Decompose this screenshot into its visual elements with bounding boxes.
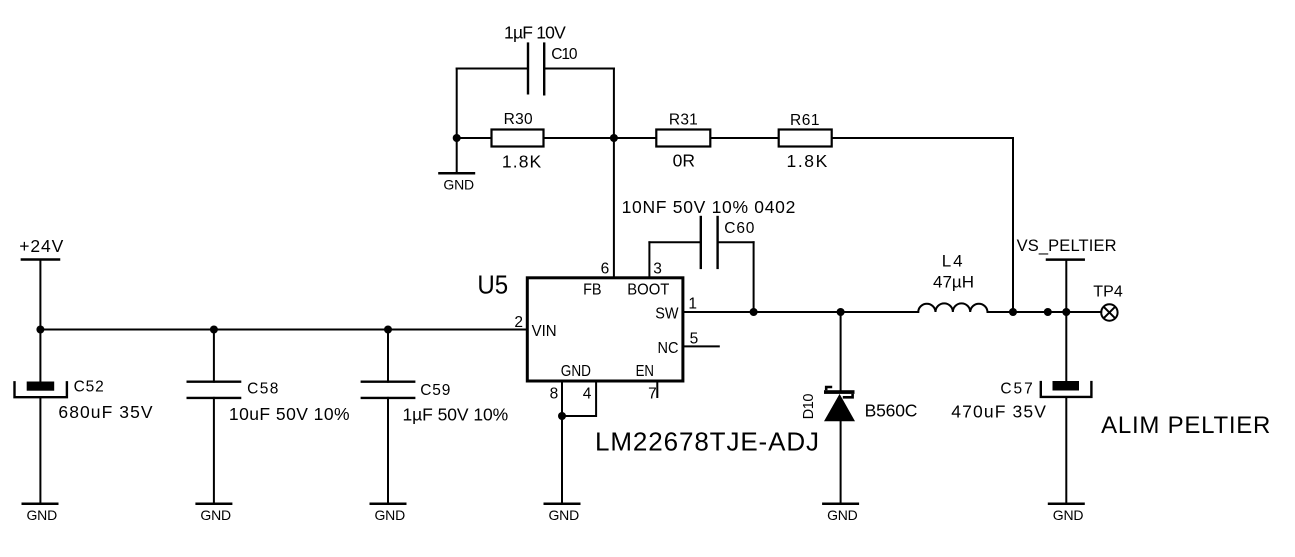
svg-text:U5: U5 bbox=[477, 271, 508, 300]
wire C58 bottom bbox=[213, 398, 215, 504]
capacitor C52 polarized bbox=[15, 381, 67, 397]
svg-text:C60: C60 bbox=[724, 220, 754, 237]
ground bars bbox=[22, 173, 1085, 503]
power +24V bar bbox=[22, 258, 59, 261]
wire FB vertical bbox=[613, 69, 615, 277]
capacitor C57 polarized bbox=[1041, 381, 1092, 397]
wire SW to inductor bbox=[684, 311, 918, 313]
wire C57 top bbox=[1065, 312, 1067, 381]
svg-text:0R: 0R bbox=[673, 150, 695, 170]
capacitor C10 plates bbox=[528, 42, 544, 95]
svg-text:VIN: VIN bbox=[532, 323, 557, 340]
svg-text:GND: GND bbox=[561, 363, 591, 380]
svg-text:C10: C10 bbox=[551, 46, 578, 63]
ground C59 bbox=[370, 502, 407, 505]
VS_PELTIER net bar bbox=[1047, 258, 1084, 261]
wire gnd-R30 bbox=[457, 137, 492, 139]
svg-text:TP4: TP4 bbox=[1093, 284, 1123, 301]
wire D10 bottom bbox=[840, 421, 842, 504]
pin 7 EN stub bbox=[656, 383, 658, 398]
chip pin names bbox=[514, 261, 698, 403]
GND labels bbox=[27, 177, 1084, 524]
ground R30 bbox=[438, 172, 475, 175]
resistor R61 bbox=[779, 130, 832, 147]
svg-text:1µF 10V: 1µF 10V bbox=[504, 22, 566, 42]
big labels bbox=[477, 271, 1270, 457]
pin 5 NC stub bbox=[685, 345, 719, 347]
svg-text:10uF 50V 10%: 10uF 50V 10% bbox=[229, 404, 350, 424]
wire D10 top bbox=[840, 312, 842, 390]
node C59/bus bbox=[384, 326, 392, 334]
svg-text:ALIM PELTIER: ALIM PELTIER bbox=[1101, 412, 1270, 439]
svg-text:1.8K: 1.8K bbox=[502, 152, 542, 172]
svg-text:C52: C52 bbox=[74, 379, 104, 396]
svg-text:NC: NC bbox=[658, 339, 679, 357]
svg-text:EN: EN bbox=[636, 363, 654, 380]
svg-text:GND: GND bbox=[200, 507, 231, 523]
svg-text:L4: L4 bbox=[942, 252, 963, 271]
svg-text:C59: C59 bbox=[420, 382, 450, 399]
wire pin 4 bbox=[562, 383, 596, 417]
resistor R31 bbox=[656, 130, 710, 147]
svg-text:1.8K: 1.8K bbox=[787, 151, 828, 171]
wire C59 top bbox=[387, 330, 389, 382]
ground C57 bbox=[1048, 502, 1085, 505]
svg-text:R30: R30 bbox=[504, 111, 533, 128]
IC U5 LM22678TJE-ADJ body bbox=[527, 278, 683, 381]
node R30 gnd bbox=[453, 134, 461, 142]
node C58/bus bbox=[210, 326, 218, 334]
wire C60 right bbox=[718, 241, 754, 243]
svg-text:6: 6 bbox=[601, 261, 610, 278]
ground C52 bbox=[22, 502, 59, 505]
wire C10 right horizontal bbox=[544, 68, 614, 70]
node FB/R30/R31 bbox=[610, 134, 618, 142]
capacitor C58 plates bbox=[187, 382, 242, 398]
svg-text:GND: GND bbox=[1053, 507, 1084, 523]
svg-text:4: 4 bbox=[583, 385, 592, 402]
svg-text:B560C: B560C bbox=[865, 400, 918, 420]
svg-text:VS_PELTIER: VS_PELTIER bbox=[1017, 237, 1117, 255]
wire inductor to TP4 bbox=[988, 311, 1102, 313]
wire C57 bottom bbox=[1065, 398, 1067, 504]
inductor L4 bbox=[918, 303, 987, 312]
wire feedback vertical bbox=[1012, 138, 1014, 312]
svg-text:GND: GND bbox=[549, 507, 580, 523]
svg-text:GND: GND bbox=[443, 177, 474, 193]
node C60/SW bbox=[750, 308, 758, 316]
svg-text:10NF 50V 10% 0402: 10NF 50V 10% 0402 bbox=[622, 197, 796, 217]
wire C58 top bbox=[213, 330, 215, 382]
svg-text:8: 8 bbox=[550, 385, 559, 402]
node VS_PELTIER/SW bbox=[1062, 308, 1070, 316]
svg-text:1: 1 bbox=[688, 295, 697, 312]
svg-text:D10: D10 bbox=[801, 394, 817, 420]
svg-text:+24V: +24V bbox=[19, 236, 63, 256]
wire R61 right bbox=[832, 137, 1013, 139]
svg-text:470uF 35V: 470uF 35V bbox=[951, 402, 1046, 422]
svg-text:GND: GND bbox=[375, 507, 406, 523]
svg-text:SW: SW bbox=[655, 305, 679, 323]
resistor R30 bbox=[492, 130, 544, 147]
svg-text:1µF 50V 10%: 1µF 50V 10% bbox=[403, 405, 509, 425]
svg-text:GND: GND bbox=[827, 507, 858, 523]
svg-text:C57: C57 bbox=[1000, 381, 1032, 398]
wire VS_PELTIER down bbox=[1065, 260, 1067, 312]
ground C58 bbox=[195, 502, 232, 505]
wire R31-R61 bbox=[710, 137, 778, 139]
wire C59 bottom bbox=[387, 398, 389, 504]
svg-text:680uF 35V: 680uF 35V bbox=[58, 402, 153, 422]
wire +24V vertical bbox=[39, 260, 41, 330]
svg-text:3: 3 bbox=[653, 261, 662, 278]
wire BOOT vertical bbox=[648, 242, 650, 276]
wire C60 down to SW bbox=[753, 242, 755, 312]
capacitor C60 plates bbox=[701, 216, 718, 269]
wire R30-R31 bbox=[544, 137, 657, 139]
wire C52 bottom bbox=[39, 398, 41, 504]
svg-text:2: 2 bbox=[514, 314, 523, 331]
svg-text:C58: C58 bbox=[247, 381, 278, 398]
node +24V/bus bbox=[36, 326, 44, 334]
wire C10 left horizontal bbox=[457, 68, 528, 70]
wire VIN bus bbox=[40, 329, 525, 331]
diode D10 bbox=[824, 387, 855, 421]
node feedback/SW bbox=[1009, 308, 1017, 316]
node SW extra bbox=[1044, 308, 1052, 316]
wire left vertical to GND bbox=[456, 69, 458, 174]
wire chip gnd down bbox=[561, 416, 563, 504]
test point TP4 bbox=[1101, 304, 1117, 320]
wire C52 top bbox=[39, 330, 41, 382]
svg-text:GND: GND bbox=[27, 507, 58, 523]
node chip gnd bbox=[558, 412, 566, 420]
svg-text:R61: R61 bbox=[790, 112, 820, 129]
capacitor C59 plates bbox=[361, 382, 416, 398]
svg-text:LM22678TJE-ADJ: LM22678TJE-ADJ bbox=[595, 427, 819, 457]
wire pin 8 bbox=[561, 383, 563, 417]
svg-text:R31: R31 bbox=[669, 112, 698, 129]
ground U5 bbox=[544, 502, 581, 505]
svg-text:7: 7 bbox=[648, 385, 657, 402]
ground D10 bbox=[822, 502, 859, 505]
node D10/SW bbox=[837, 308, 845, 316]
svg-text:5: 5 bbox=[690, 330, 699, 347]
svg-text:BOOT: BOOT bbox=[627, 281, 669, 298]
wire BOOT to C60 bbox=[649, 241, 700, 243]
svg-text:47µH: 47µH bbox=[933, 272, 974, 291]
svg-text:FB: FB bbox=[583, 281, 601, 299]
